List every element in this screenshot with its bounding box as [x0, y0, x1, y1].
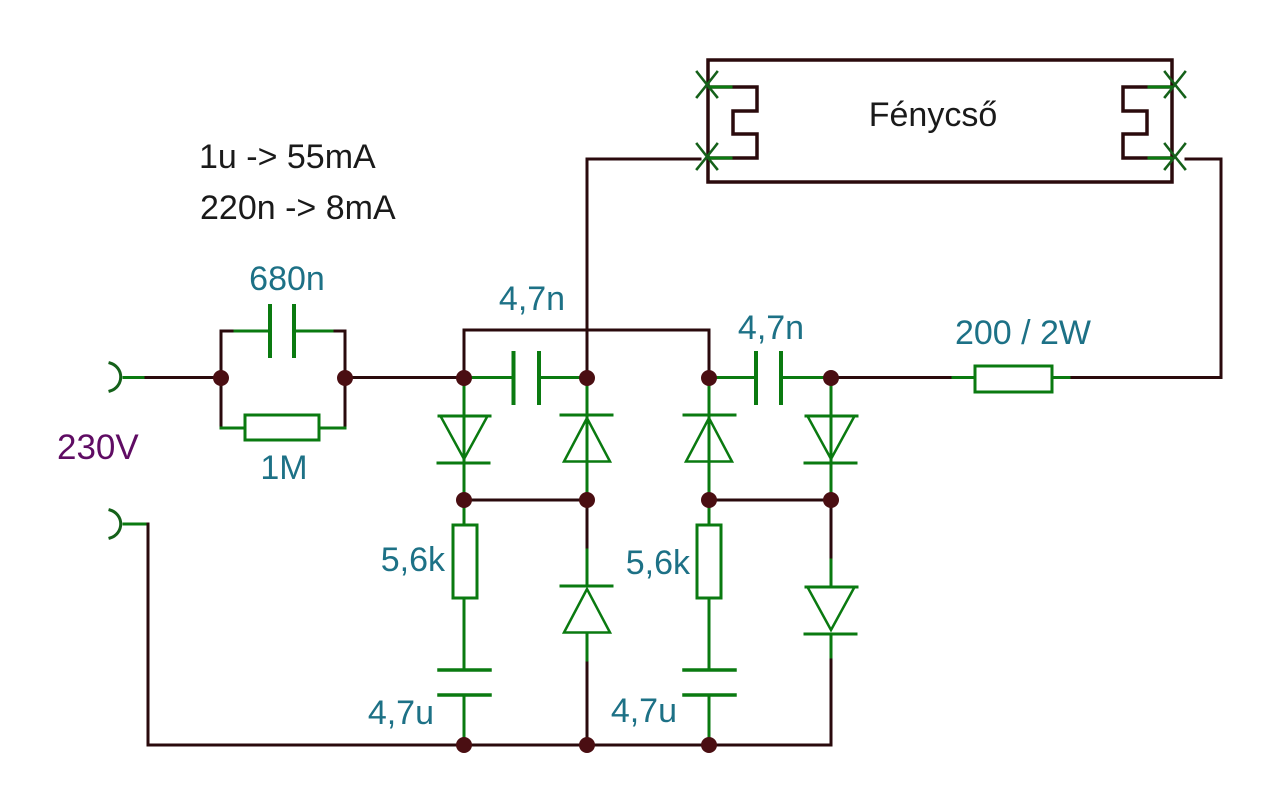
resistor R3 5,6k body: [453, 525, 477, 598]
lamp right filament green stubs: [1149, 87, 1171, 158]
node dot C: [701, 370, 717, 386]
svg-text:1M: 1M: [260, 449, 307, 487]
wire connector lead green: [124, 376, 148, 379]
diode D4 down bars: [805, 416, 857, 463]
svg-text:680n: 680n: [249, 260, 325, 298]
wire top rail A to C: [464, 330, 709, 378]
diode D5 up bar: [561, 585, 612, 588]
node dot H: [823, 492, 839, 508]
lamp pin X upper-right: [1165, 72, 1185, 97]
wire D6 lower green: [830, 634, 833, 662]
lamp U1 box: [708, 60, 1172, 182]
node dot E: [456, 492, 472, 508]
wire right rail: [1072, 159, 1221, 378]
wire input combo right riser: [344, 331, 347, 428]
svg-text:230V: 230V: [57, 428, 139, 467]
wire mid rail G-H: [709, 499, 831, 502]
diode D3 up triangle: [686, 418, 732, 462]
lamp right filament: [1123, 87, 1171, 158]
resistor R2 200/2W body: [975, 366, 1052, 392]
diode D6 down bars: [805, 587, 857, 634]
node dot j2: [337, 370, 353, 386]
wire input combo left riser: [220, 331, 223, 428]
lamp left filament: [709, 87, 757, 158]
node dot J: [579, 737, 595, 753]
capacitor C5 4,7u plates: [684, 670, 735, 695]
capacitor C1 680n plates: [270, 306, 294, 356]
node dot K: [701, 737, 717, 753]
capacitor C4 4,7u plates: [439, 670, 490, 695]
svg-text:220n -> 8mA: 220n -> 8mA: [200, 189, 396, 227]
wire R4 to C5: [708, 598, 711, 670]
diode D6 down triangle: [808, 588, 854, 630]
wire F drop green: [586, 550, 589, 586]
svg-text:4,7n: 4,7n: [499, 280, 565, 318]
diode D5 up triangle: [564, 589, 610, 633]
capacitor C1 680n leads: [235, 330, 332, 333]
lamp pin X upper-left: [697, 72, 717, 97]
resistor R2 200/2W leads: [953, 376, 1074, 379]
wire C5 to bottom rail: [708, 695, 711, 745]
wire arm C vertical green: [708, 378, 711, 500]
wire lower lead green: [124, 523, 146, 526]
wire H drop dark: [830, 500, 833, 562]
diode D2 up bar: [561, 414, 612, 417]
svg-text:Fénycső: Fénycső: [869, 96, 998, 134]
diode D2 up triangle: [564, 418, 610, 462]
wire R3 to C4: [463, 598, 466, 670]
resistor R1 1M body: [245, 415, 319, 440]
svg-text:4,7u: 4,7u: [368, 694, 434, 732]
node dot D: [823, 370, 839, 386]
resistor R4 5,6k lead top: [708, 500, 711, 526]
diode D3 up bar: [684, 414, 735, 417]
capacitor C3 4,7n plates: [756, 353, 781, 403]
wire upper feed: [146, 376, 221, 379]
node dot I: [456, 737, 472, 753]
lamp left filament green stubs: [709, 87, 731, 158]
wire lamp left drop: [587, 159, 700, 378]
diode D4 down triangle: [808, 417, 854, 459]
diode D1 down bars: [438, 416, 490, 463]
wire F drop dark: [586, 500, 589, 552]
lamp pin X lower-left: [697, 144, 717, 169]
wire arm D vertical green: [830, 378, 833, 500]
svg-text:5,6k: 5,6k: [626, 544, 691, 582]
wire combo top dark stubs: [221, 330, 345, 333]
svg-text:1u -> 55mA: 1u -> 55mA: [199, 138, 376, 176]
node dot j1: [213, 370, 229, 386]
wire D5 lower green: [586, 633, 589, 665]
wire bottom rail: [148, 744, 831, 747]
resistor R3 5,6k lead top: [463, 500, 466, 526]
capacitor C2 4,7n leads: [464, 376, 587, 379]
wire mid rail E-F: [464, 499, 587, 502]
diode D1 down triangle: [441, 417, 487, 459]
resistor R4 5,6k body: [697, 525, 721, 598]
wire D6 to bottom rail dark: [830, 660, 833, 745]
svg-text:200 / 2W: 200 / 2W: [955, 314, 1091, 352]
resistor R1 1M leads: [221, 427, 345, 430]
connector lower 230V terminal: [110, 510, 121, 538]
node dot G: [701, 492, 717, 508]
node dot B: [579, 370, 595, 386]
svg-text:4,7n: 4,7n: [738, 309, 804, 347]
svg-text:4,7u: 4,7u: [611, 692, 677, 730]
lamp pin X lower-right: [1165, 144, 1185, 169]
wire D5 to bottom rail dark: [586, 663, 589, 745]
node dot A: [456, 370, 472, 386]
wire D to R200: [831, 376, 955, 379]
capacitor C3 4,7n leads: [709, 376, 831, 379]
wire arm A vertical green: [463, 378, 466, 500]
wire main A feed: [345, 376, 464, 379]
wire lower drop: [147, 524, 150, 745]
capacitor C2 4,7n plates: [514, 353, 540, 403]
wire arm B vertical green: [586, 378, 589, 500]
node dot F: [579, 492, 595, 508]
wire C4 to bottom rail: [463, 695, 466, 745]
svg-text:5,6k: 5,6k: [381, 541, 446, 579]
wire H drop green: [830, 560, 833, 587]
connector upper 230V terminal: [110, 363, 121, 391]
